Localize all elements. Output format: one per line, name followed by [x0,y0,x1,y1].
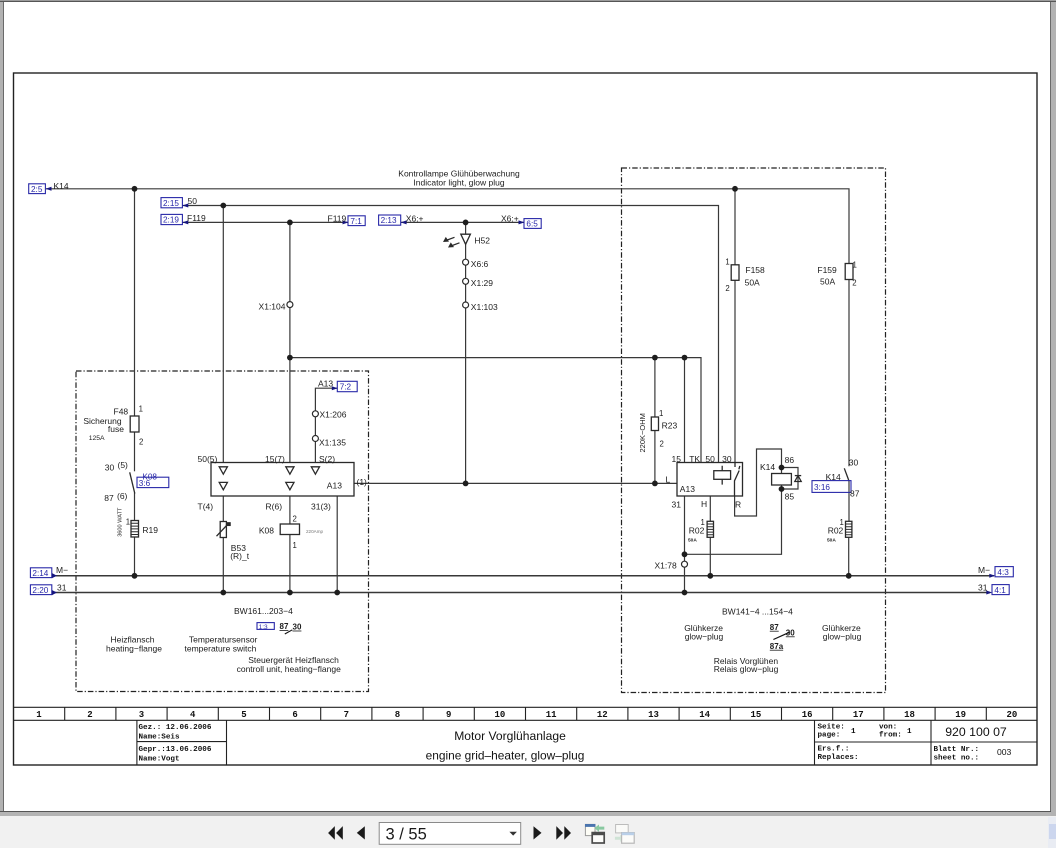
wire F48 to switch K08 [134,432,136,471]
svg-text:2:13: 2:13 [381,216,397,225]
svg-text:003: 003 [997,747,1012,757]
svg-text:Relais glow−plug: Relais glow−plug [714,664,779,674]
viewer right border strip [1050,2,1051,817]
svg-text:50A: 50A [820,277,835,287]
svg-text:1: 1 [126,517,130,526]
svg-text:18: 18 [904,710,915,720]
svg-text:R02: R02 [828,525,844,535]
svg-text:220K−OHM: 220K−OHM [638,413,647,452]
relay box A13 [677,463,743,497]
svg-text:31(3): 31(3) [311,501,331,511]
terminal X6:6 [463,259,469,265]
toolbar last-page button [556,826,571,840]
svg-text:1: 1 [853,260,857,269]
svg-text:9: 9 [446,710,451,720]
wire F119 branch down to A13 pin 15(7) [289,222,291,462]
junction F119/15 column [287,220,293,226]
svg-text:2: 2 [852,278,856,287]
svg-text:1: 1 [36,710,42,720]
svg-text:11: 11 [546,710,557,720]
svg-text:H: H [701,499,707,509]
svg-text:1: 1 [293,541,297,550]
svg-text:87: 87 [770,623,779,632]
terminal circles [287,259,688,567]
wire R23 branch [654,358,656,484]
junction 15 pin top [682,355,688,361]
ref box 2:14 [30,568,57,579]
svg-text:1: 1 [725,257,729,266]
svg-text:4:1: 4:1 [994,586,1006,595]
svg-text:1: 1 [139,405,143,414]
svg-text:R02: R02 [689,525,705,535]
junction 50/A13 column [220,203,226,209]
svg-text:Indicator light, glow plug: Indicator light, glow plug [413,178,504,188]
svg-text:85: 85 [785,491,795,501]
svg-text:50A: 50A [745,277,760,287]
svg-text:von:: von: [879,724,897,732]
svg-text:controll unit, heating−flange: controll unit, heating−flange [237,664,341,674]
toolbar first-page button [328,826,343,840]
svg-text:7:1: 7:1 [350,217,362,226]
svg-text:S(2): S(2) [319,454,335,464]
svg-text:920 100 07: 920 100 07 [945,725,1007,739]
relay A13 internal coil [714,466,731,485]
svg-text:2:5: 2:5 [31,185,43,194]
svg-text:2:15: 2:15 [163,199,179,208]
toolbar next-page button [534,826,542,839]
svg-text:2: 2 [87,710,92,720]
svg-text:Seite:: Seite: [818,724,845,732]
ref box 4:1 [986,585,1009,595]
viewer top border line [0,0,1056,1]
svg-text:6:5: 6:5 [526,220,538,229]
svg-text:12: 12 [597,710,608,720]
contact slash 87-30 [285,630,293,634]
svg-text:F159: F159 [817,265,837,275]
svg-text:2: 2 [660,440,664,449]
wire R19 to M- bus [134,537,136,576]
svg-text:20: 20 [1006,710,1017,720]
wire mid horizontal to relay box [290,358,701,463]
svg-text:X1:104: X1:104 [259,301,286,311]
toolbar previous-view icon [585,824,604,843]
ref box 1:3 [257,623,274,631]
wire 31(3) pin to bus [336,496,338,593]
svg-text:X6:+: X6:+ [406,214,424,224]
connector triangle pin 50(5) [219,467,227,474]
toolbar page number combo box [379,823,521,845]
junction lamp line to A13 output [463,481,469,487]
svg-text:from:: from: [879,732,902,740]
toolbar background [0,816,1056,848]
svg-text:30: 30 [105,462,115,472]
svg-text:50: 50 [188,196,198,206]
bus 31 [52,592,990,594]
wire K14 coil 85 to pin31 wire [685,489,782,554]
control unit A13 box [211,463,354,497]
fuse F159 [845,264,853,280]
relay A13 internal contact [735,463,740,497]
fuse F158 [731,265,739,281]
pdf viewer toolbar icons [0,812,700,848]
svg-text:87a: 87a [770,642,784,651]
wire K08 coil to 31 bus [289,535,291,593]
wire R(6) pin to K08 coil [289,496,291,524]
ref box 7:2 [332,381,357,391]
junction K08 on 31 bus [287,590,293,596]
wire A13 pin R to coil 86 [735,449,782,516]
svg-text:(6): (6) [117,491,128,501]
svg-text:3: 3 [139,710,144,720]
svg-text:R19: R19 [142,525,158,535]
svg-text:2: 2 [293,514,297,523]
ref box 4:3 [989,567,1013,578]
junction R02 left on M- bus [707,573,713,579]
junction X6 lamp branch [463,220,469,226]
svg-text:K14: K14 [54,181,69,191]
ref box 3:6 K08 [137,473,169,488]
svg-text:T(4): T(4) [198,501,214,511]
column strip cell dividers [65,707,987,720]
svg-text:R(6): R(6) [266,501,283,511]
title block: gez cell right divider [226,720,228,765]
connector triangle pin T(4) [219,482,227,489]
lamp arrow 1 [443,237,455,242]
toolbar prev-page button [357,826,365,839]
svg-text:13: 13 [648,710,659,720]
ref box 2:20 [30,585,57,596]
ref box 6:5 [519,219,542,229]
svg-text:3:16: 3:16 [814,483,830,492]
svg-text:87: 87 [280,622,289,631]
wire X6:+ [401,221,524,223]
svg-text:Replaces:: Replaces: [818,754,859,762]
wire 50 [183,206,719,463]
svg-text:glow−plug: glow−plug [685,631,724,641]
column numbers [36,710,1017,720]
svg-text:L: L [666,475,671,485]
svg-text:1: 1 [851,728,856,736]
wire contact K14 87 down to R02 [848,481,850,576]
svg-text:F119: F119 [328,214,347,224]
svg-text:A13: A13 [318,379,333,389]
svg-text:3:6: 3:6 [139,479,151,488]
terminal X1:135 [312,436,318,442]
dashed enclosure glow-plug group [622,168,886,693]
svg-text:(R)_t: (R)_t [230,551,250,561]
svg-text:2:14: 2:14 [32,569,48,578]
temperature sensor B53 [217,522,231,538]
contact K14 blade [844,468,849,481]
dashed enclosure heating-flange group [76,371,369,692]
svg-text:50A: 50A [827,538,836,544]
contact blade footprint [773,632,790,639]
svg-text:A13: A13 [680,484,695,494]
svg-text:19: 19 [955,710,966,720]
wire A13 output (1) to relay L [354,482,677,484]
title block: right cell divider [930,720,932,765]
svg-text:A13: A13 [327,481,342,491]
terminal X1:103 [463,302,469,308]
title block texts [139,724,1012,764]
svg-text:50A: 50A [688,538,697,544]
wire F159 to contact K14 [848,280,850,467]
junction R02 right on M- bus [846,573,852,579]
svg-text:15: 15 [672,454,682,464]
svg-text:Name:Vogt: Name:Vogt [139,756,180,764]
wire K14 vertical to fuse F48 [134,189,136,416]
connector triangle pin S(2) [311,467,319,474]
svg-text:1: 1 [659,409,663,418]
black labels [54,169,991,675]
indicator lamp H52 [461,234,471,244]
junction B53 on 31 bus [220,590,226,596]
column number strip bottom line [14,719,1038,721]
svg-text:BW161...203−4: BW161...203−4 [234,606,293,616]
svg-text:50: 50 [705,454,715,464]
title block: right middle line [815,741,1038,743]
ref box 3:16 K14 [812,481,851,493]
diode across K14 coil [795,476,801,482]
junction R19 on M- bus [132,573,138,579]
fuse F48 [130,416,139,432]
ref box 7:1 [343,216,366,226]
svg-text:2: 2 [139,438,143,447]
ref box 2:15 [161,198,188,208]
svg-text:Ers.f.:: Ers.f.: [818,746,850,754]
junction coil 86 [779,465,785,471]
wire F119 [183,221,349,223]
svg-text:2:20: 2:20 [32,586,48,595]
wire A13 pin H through R02 to M- bus [709,496,711,576]
terminal X1:29 [463,278,469,284]
connector triangle pin 15(7) [286,467,294,474]
svg-text:X6:6: X6:6 [471,259,489,269]
svg-text:R23: R23 [662,420,678,430]
wire K14 top bus [46,189,849,264]
wire K14 coil stubs [781,485,783,489]
terminal X1:78 [682,561,688,567]
svg-text:3 / 55: 3 / 55 [386,826,427,844]
svg-text:(5): (5) [118,460,129,470]
resistor R02 right [846,521,852,537]
svg-text:87: 87 [104,493,114,503]
switch K08 contact blade [130,472,135,493]
svg-text:F158: F158 [745,265,765,275]
svg-text:glow−plug: glow−plug [823,631,862,641]
wire A13 pin 31 to bus [684,496,686,593]
svg-text:2:19: 2:19 [163,216,179,225]
relay coil K08 [280,524,299,535]
svg-text:7:2: 7:2 [340,383,352,392]
junction pin31/85 wire [682,551,688,557]
svg-text:Gepr.:13.06.2006: Gepr.:13.06.2006 [139,746,212,754]
viewer bottom separator [0,811,1051,812]
junction pin31 on 31 bus [682,590,688,596]
wire lamp branch vertical [465,222,467,483]
svg-text:10: 10 [494,710,505,720]
svg-text:X1:135: X1:135 [319,438,346,448]
svg-text:sheet no.:: sheet no.: [934,755,980,763]
svg-text:16: 16 [802,710,813,720]
toolbar next-view icon disabled [615,825,634,844]
svg-text:X1:29: X1:29 [471,278,493,288]
wire T(4) pin to B53 [222,496,224,522]
junction F158 top [732,186,738,192]
svg-text:31: 31 [978,583,988,593]
ref box 2:19 [161,214,188,224]
svg-text:4: 4 [190,710,196,720]
ref box 2:13 [379,215,407,225]
svg-text:X1:78: X1:78 [655,560,677,570]
wire switch K08 to R19 [134,493,136,521]
svg-text:7: 7 [344,710,349,720]
junction R23 top [652,355,658,361]
svg-text:30: 30 [293,623,302,632]
wire diode parallel branch [782,468,799,490]
bus M- [52,575,994,577]
svg-text:220Amp: 220Amp [306,529,324,534]
wire S(2) to plug 7:2 [315,388,337,462]
svg-text:6: 6 [292,710,297,720]
connector triangle pin R(6) [286,482,294,489]
drawing frame border [14,73,1038,765]
svg-text:86: 86 [785,455,795,465]
svg-text:31: 31 [672,499,682,509]
svg-text:1:3: 1:3 [259,624,268,631]
title block: gez cell middle line [137,741,227,743]
svg-text:Name:Seis: Name:Seis [139,734,180,742]
svg-text:(1): (1) [357,477,368,487]
svg-text:Gez.: 12.06.2006: Gez.: 12.06.2006 [139,724,212,732]
svg-text:2: 2 [725,284,729,293]
svg-text:X6:+: X6:+ [501,214,519,224]
svg-text:15: 15 [750,710,761,720]
viewer left border strip [0,2,3,812]
svg-text:K08: K08 [259,526,274,536]
svg-text:17: 17 [853,710,864,720]
svg-text:X1:206: X1:206 [320,410,347,420]
column number strip top line [14,706,1038,708]
wire B53 to 31 bus [222,538,224,593]
lamp arrow 2 [448,242,460,247]
svg-text:M−: M− [56,565,68,575]
svg-text:Motor Vorglühanlage: Motor Vorglühanlage [454,729,566,743]
svg-text:125A: 125A [89,435,105,442]
svg-text:temperature switch: temperature switch [185,643,257,653]
ref box 2:5 [29,184,52,194]
svg-text:14: 14 [699,710,710,720]
svg-text:page:: page: [818,732,841,740]
svg-text:15(7): 15(7) [265,454,285,464]
resistor R23 [651,417,658,431]
svg-text:31: 31 [57,582,67,592]
resistor R19 heating element [131,521,139,538]
junction K14/F48 column [132,186,138,192]
scrollbar corner piece [1048,817,1056,848]
wire 15 pin vertical [684,358,686,463]
svg-text:H52: H52 [474,236,490,246]
terminal X1:104 [287,302,293,308]
svg-text:engine grid–heater, glow–plug: engine grid–heater, glow–plug [426,749,585,763]
svg-text:50(5): 50(5) [198,454,218,464]
svg-text:TK: TK [689,454,700,464]
junction mid wire left [287,355,293,361]
svg-text:R: R [735,500,741,510]
svg-text:K14: K14 [826,472,841,482]
junction 31(3) on 31 bus [334,590,340,596]
svg-text:K14: K14 [760,462,775,472]
svg-text:BW141−4 ...154−4: BW141−4 ...154−4 [722,607,793,617]
wire F158 branch to pin 30 [734,189,736,463]
svg-text:87: 87 [850,488,860,498]
resistor R02 left [707,521,713,537]
svg-text:5: 5 [241,710,246,720]
title block: seite cell left divider [814,720,816,765]
title block: left cell divider [136,720,138,765]
svg-text:M−: M− [978,565,990,575]
svg-text:1: 1 [907,728,912,736]
svg-text:30: 30 [722,454,732,464]
svg-text:heating−flange: heating−flange [106,643,162,653]
svg-text:Blatt Nr.:: Blatt Nr.: [934,746,980,754]
svg-text:F119: F119 [187,213,206,223]
blue cross reference boxes [29,184,1014,631]
svg-text:3600 WATT: 3600 WATT [118,507,124,537]
svg-text:4:3: 4:3 [997,568,1009,577]
wire 50 branch down to A13 pin 50(5) [222,206,224,463]
relay coil K14 [772,474,792,486]
svg-text:8: 8 [395,710,400,720]
svg-text:30: 30 [849,457,859,467]
terminal X1:206 [312,411,318,417]
junction coil 85 [779,486,785,492]
svg-text:fuse: fuse [108,424,124,434]
junction R23 bottom [652,481,658,487]
svg-text:X1:103: X1:103 [471,302,498,312]
